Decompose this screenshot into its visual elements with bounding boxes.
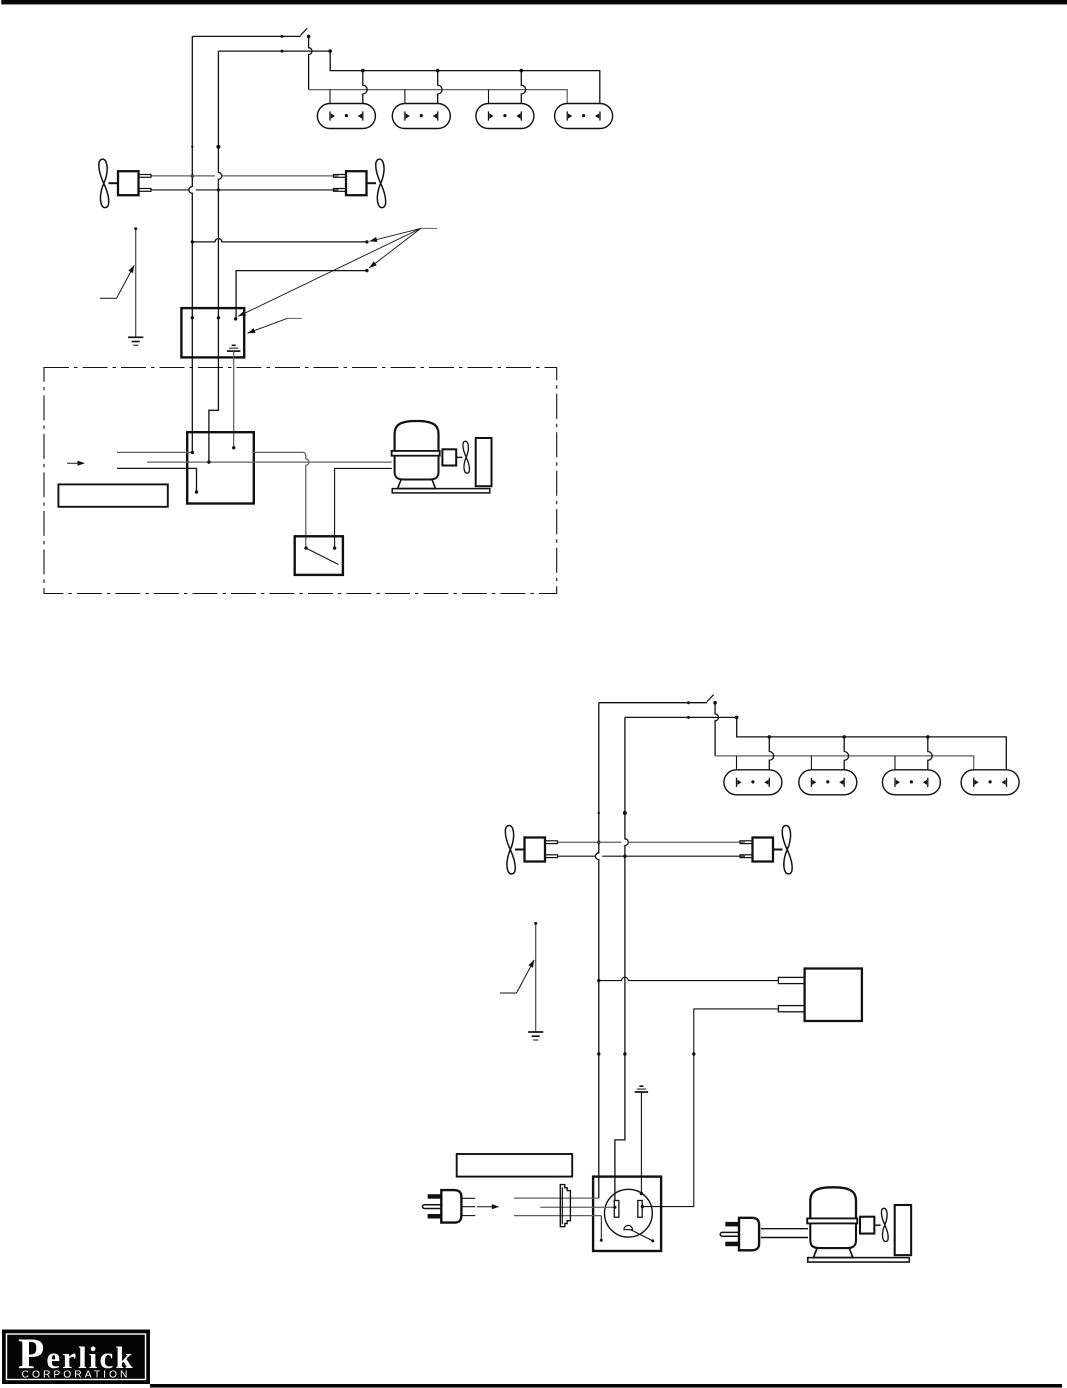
junction box A [181,308,244,357]
wire fan bottom B [558,855,745,857]
lamp socket L1 B [724,770,782,795]
wire lower bus A [309,90,568,104]
receptacle slot left B [614,1201,619,1218]
compressor cord B [761,1228,808,1230]
node wire1 in junction box A [191,316,194,319]
wire main leg 2 A [218,51,221,200]
receptacle ground hole B [624,1225,633,1229]
lamp socket L2 A [392,104,450,129]
thermostat B sensing line [535,923,537,1032]
wire lamp3 right drop B [926,735,930,739]
wire control to compressor A [147,461,392,463]
wire lamp1 right drop B [768,735,772,739]
label box A [58,484,167,506]
relay switch blade A [306,548,339,564]
wire fan top A [152,175,339,177]
arrow plug direction B [477,1206,495,1208]
wire L2 feed B [625,716,737,718]
wire main leg 1 B [595,703,598,867]
wire relay return B [642,1009,778,1207]
wire switched leg B [715,703,718,756]
wire ground stem A [233,351,235,448]
leader callout junction box A [287,317,302,319]
leader callout cluster A [421,227,437,229]
thermostat B actuator arrow [500,992,517,994]
wire fan top B [558,841,745,843]
fan motor left B [525,838,546,862]
svg-text:CORPORATION: CORPORATION [22,1370,131,1381]
Perlick logo [2,1330,150,1385]
start relay box A [295,536,343,575]
wire main leg 2 lower A [209,200,219,462]
wire relay feed top B [599,977,779,980]
wire main leg 2 B [625,717,628,866]
wire relay to compressor A [335,468,392,548]
wire main leg 1 A [189,36,192,200]
wire control to relay A [254,452,309,548]
receptacle mounting diagonal B [631,1230,653,1241]
wire cord neutral drop B [600,1216,602,1241]
fan motor left A [118,171,139,195]
wire main leg 1 lower B [598,866,600,1198]
lamp socket L1 A [317,104,375,129]
ground B thermostat [528,1031,543,1033]
wire switched leg A [309,36,312,89]
wire L2 feed A [218,50,330,52]
lamp socket L4 B [961,770,1019,795]
power cord plug B [441,1190,461,1223]
fan motor right B [753,838,774,862]
wall plate B [560,1185,570,1227]
lamp socket L4 A [555,104,613,129]
ground B (inverted) [639,1085,643,1087]
temperature control box A [187,432,254,503]
wire upper bus A [330,51,600,103]
wire cord line1 B [514,1197,599,1199]
compressor unit B [810,1187,856,1218]
wire ground stem B [640,1092,642,1194]
receptacle slot right B [638,1201,642,1218]
ground junction box A (inverted) [232,344,236,346]
wire annotated tap 1 A [191,240,194,243]
switch S-B blade [707,695,714,702]
wire lower bus B [715,756,974,770]
relay terminal stub 2 B [778,1006,804,1012]
relay terminal stub 1 B [778,977,804,983]
wire cord line2 B [540,1206,614,1208]
condenser unit plug B [739,1218,759,1251]
wire L1 feed B [599,702,707,704]
lamp socket L3 A [476,104,534,129]
wire lamp2 right drop B [842,735,846,739]
fan motor right A [346,171,367,195]
compressor unit A [395,421,439,451]
switch S-A blade [300,28,307,35]
wire annotated tap 2 A [236,271,367,319]
relay box B [805,969,862,1022]
wire upper bus B [737,717,1007,769]
thermostat A sensing line [135,229,137,338]
wire cord line3 B [514,1215,601,1217]
wire lamp1 left drop A [329,90,331,104]
wire L1 feed A [192,35,300,37]
bottom rule bar [150,1384,1062,1388]
lamp socket L3 B [882,770,940,795]
wire supply line 1 A [117,451,193,453]
plug stub wires B [461,1197,475,1199]
arrow supply direction A [67,462,81,464]
wire lamp3 left drop A [488,90,490,104]
dashed enclosure (cabinet) A [44,368,557,594]
wire main leg 1 lower A [191,200,193,452]
thermostat A actuator arrow [100,297,117,299]
wire lamp2 right drop A [436,69,440,73]
wire lamp2 left drop A [404,90,406,104]
wire lamp3 left drop B [894,756,896,770]
wire fan bottom A [152,189,339,191]
wire lamp1 left drop B [736,756,738,770]
receptacle box B [593,1177,661,1251]
wire supply line 3 A [117,468,197,492]
wire main leg 2 lower B [615,866,625,1200]
top rule bar [1,0,1067,4]
ground A thermostat [128,336,143,338]
receptacle face circle B [605,1189,653,1237]
node wire2 in junction box A [217,316,220,319]
lamp socket L2 B [799,770,857,795]
wire lamp2 left drop B [810,756,812,770]
wire lamp1 right drop A [361,69,365,73]
wire lamp3 right drop A [520,69,524,73]
label box B [457,1154,573,1177]
